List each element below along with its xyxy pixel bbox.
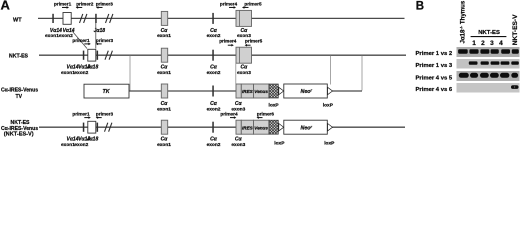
gel band row 4 (NKT-ES-V lane)	[511, 85, 519, 89]
homology vertical line left	[129, 56, 131, 91]
loxP triangle 2 (TV)	[328, 87, 333, 94]
svg-text:primer3: primer3	[96, 2, 114, 7]
Ca exon1 box (NKT-ES-V)	[161, 120, 167, 134]
IRES box (TV)	[241, 84, 253, 98]
svg-text:(NKT-ES-V): (NKT-ES-V)	[4, 132, 34, 138]
Ja18 tick (NKT-ES)	[97, 51, 99, 60]
svg-text:primer2: primer2	[76, 2, 94, 7]
svg-text:exon2: exon2	[207, 142, 221, 148]
locus break right (WT)	[106, 14, 113, 23]
svg-text:Vα14: Vα14	[63, 28, 75, 34]
svg-text:WT: WT	[13, 18, 22, 24]
svg-text:primer1: primer1	[72, 38, 90, 43]
svg-text:primer1: primer1	[72, 112, 90, 117]
svg-text:Cα: Cα	[210, 28, 218, 34]
svg-text:primer5: primer5	[244, 2, 262, 7]
Ca exon1 box (NKT-ES)	[161, 48, 167, 62]
loxP triangle 1 (NKT-ES-V)	[279, 124, 284, 131]
primer3 arrow (NKT-ES-V)	[98, 117, 102, 119]
Va14 exon2 open box (NKT-ES)	[88, 49, 96, 61]
svg-text:exon1: exon1	[157, 142, 171, 148]
svg-text:Jα18: Jα18	[87, 137, 99, 143]
svg-text:primer6: primer6	[257, 112, 275, 117]
svg-text:exon2: exon2	[207, 107, 221, 113]
svg-text:Cα: Cα	[210, 65, 218, 71]
Va14 exon1 tick (NKT-ES)	[83, 51, 85, 60]
locus break (NKT-ES-V)	[105, 123, 112, 132]
Ca exon3 strip (NKT-ES-V)	[236, 120, 241, 134]
Ja18 tick (NKT-ES-V)	[97, 123, 99, 132]
svg-text:loxP: loxP	[324, 141, 335, 147]
svg-text:Cα: Cα	[241, 65, 249, 71]
svg-text:TV: TV	[16, 94, 23, 100]
svg-text:TK: TK	[103, 89, 111, 95]
svg-text:IRES: IRES	[242, 89, 254, 94]
Ca exon3 box (NKT-ES)	[236, 47, 252, 63]
polyA hatched box (TV)	[269, 84, 278, 98]
gel strip row 4 (Primer 4 vs 6)	[457, 83, 520, 93]
svg-text:primer4: primer4	[220, 2, 238, 7]
Va14 exon2 open box (NKT-ES-V)	[88, 121, 96, 133]
svg-text:Vα14: Vα14	[67, 137, 79, 143]
gel bands row 3	[459, 73, 518, 78]
svg-text:primer4: primer4	[220, 112, 238, 117]
svg-text:NKT-ES: NKT-ES	[478, 30, 500, 36]
NKT-ES-V locus line	[39, 126, 405, 128]
svg-text:4: 4	[499, 40, 503, 47]
svg-text:Primer 1 vs 2: Primer 1 vs 2	[416, 51, 453, 57]
svg-text:Cα: Cα	[161, 65, 169, 71]
primer4 arrow (NKT-ES)	[228, 44, 232, 46]
svg-text:Jα18: Jα18	[94, 28, 106, 34]
Venus box (NKT-ES-V)	[254, 120, 270, 134]
Neo box (NKT-ES-V)	[284, 120, 328, 134]
Ca exon2 tick (TV)	[212, 86, 214, 97]
svg-text:Jα18-/- Thymus: Jα18-/- Thymus	[459, 0, 467, 43]
svg-text:exon2: exon2	[59, 33, 73, 39]
Ja18 tick (WT)	[95, 14, 97, 23]
svg-text:A: A	[1, 0, 11, 13]
svg-text:exon1: exon1	[45, 33, 59, 39]
svg-text:exon2: exon2	[74, 70, 88, 76]
svg-text:2: 2	[481, 40, 485, 47]
svg-text:primer3: primer3	[96, 38, 114, 43]
TV vector line	[128, 90, 362, 92]
Ca exon3 strip (TV)	[236, 84, 241, 98]
svg-text:Cα: Cα	[161, 28, 169, 34]
svg-text:exon1: exon1	[61, 142, 75, 148]
Va14 exon1 tick (NKT-ES-V)	[83, 123, 85, 132]
svg-text:exon1: exon1	[157, 70, 171, 76]
primer1 arrow (NKT-ES)	[84, 43, 89, 45]
gel strip row 2 (Primer 1 vs 3)	[457, 59, 520, 69]
primer4 arrow (NKT-ES-V)	[230, 117, 234, 119]
svg-text:exon3: exon3	[231, 142, 245, 148]
svg-text:primer1: primer1	[54, 2, 72, 7]
gel bands row 1	[458, 49, 519, 53]
IRES box (NKT-ES-V)	[241, 120, 253, 134]
Ca exon1 box (TV)	[161, 84, 167, 98]
svg-text:exon2: exon2	[207, 70, 221, 76]
svg-text:Jα18: Jα18	[87, 65, 99, 71]
primer1 arrow (WT)	[62, 6, 67, 8]
primer3 arrow (WT)	[98, 6, 103, 8]
polyA hatched box (NKT-ES-V)	[269, 120, 278, 134]
primer1 arrow (NKT-ES-V)	[84, 117, 89, 119]
svg-text:Cα: Cα	[210, 137, 218, 143]
rearrangement diagonal line	[73, 32, 88, 49]
primer5 arrow (WT)	[244, 6, 249, 8]
svg-text:Venus: Venus	[254, 125, 268, 130]
svg-text:exon1: exon1	[157, 107, 171, 113]
locus break left (WT)	[80, 14, 87, 23]
svg-text:NKT-ES-V: NKT-ES-V	[512, 14, 519, 45]
svg-text:loxP: loxP	[274, 141, 285, 147]
Va14 exon1 tick (WT)	[52, 14, 54, 23]
svg-text:Vα14: Vα14	[67, 65, 79, 71]
primer3 arrow (NKT-ES)	[98, 43, 102, 45]
svg-text:Cα: Cα	[161, 101, 169, 107]
svg-text:exon1: exon1	[61, 70, 75, 76]
Ca exon2 tick (NKT-ES-V)	[212, 122, 214, 133]
Neo box (TV)	[284, 84, 328, 98]
svg-text:NKT-ES: NKT-ES	[9, 53, 29, 59]
svg-text:Cα: Cα	[235, 101, 243, 107]
Ca exon2 tick (WT)	[212, 13, 214, 24]
Ca exon3 box (WT)	[236, 10, 252, 26]
svg-text:exon3: exon3	[237, 70, 251, 76]
svg-text:Cα: Cα	[210, 101, 218, 107]
gel bands row 2	[469, 61, 519, 64]
Venus box (TV)	[254, 84, 270, 98]
svg-text:Primer 4 vs 5: Primer 4 vs 5	[416, 75, 453, 81]
loxP triangle 2 (NKT-ES-V)	[328, 124, 333, 131]
svg-text:Venus: Venus	[254, 89, 268, 94]
NKT-ES locus line	[39, 54, 406, 56]
NKT-ES underline	[471, 36, 507, 38]
homology vertical line at exon3	[235, 64, 237, 84]
Ca exon1 box (WT)	[161, 11, 167, 25]
svg-text:IRES: IRES	[242, 125, 254, 130]
homology vertical line after neo	[330, 56, 332, 85]
svg-text:primer4: primer4	[219, 39, 237, 44]
loxP triangle 1 (TV)	[279, 87, 284, 94]
gel strip row 3 (Primer 4 vs 5)	[457, 71, 520, 81]
gel strip row 1 (Primer 1 vs 2)	[457, 47, 520, 57]
svg-text:Cα: Cα	[235, 137, 243, 143]
svg-text:Primer 1 vs 3: Primer 1 vs 3	[416, 63, 453, 69]
rearrangement vertical line at Ja18	[95, 23, 97, 49]
WT locus line	[38, 17, 405, 19]
homology vertical line right end	[361, 56, 363, 91]
TK box (TV)	[84, 84, 129, 98]
svg-text:3: 3	[490, 40, 494, 47]
svg-text:loxP: loxP	[269, 103, 280, 109]
svg-text:Cα-IRES-Venus: Cα-IRES-Venus	[1, 88, 38, 94]
svg-text:1: 1	[472, 40, 476, 47]
Va14 exon2 open box (WT)	[63, 13, 71, 25]
primer2 arrow (WT)	[78, 6, 83, 8]
header NKT-ES-V (rotated)	[512, 14, 519, 45]
svg-text:primer3: primer3	[96, 112, 114, 117]
svg-text:B: B	[416, 0, 424, 12]
svg-text:exon2: exon2	[74, 142, 88, 148]
primer4 arrow (WT)	[229, 6, 234, 8]
primer5 arrow (NKT-ES)	[247, 44, 251, 46]
primer6 arrow (NKT-ES-V)	[259, 117, 263, 119]
svg-text:Primer 4 vs 6: Primer 4 vs 6	[416, 87, 453, 93]
Ca exon2 tick (NKT-ES)	[212, 50, 214, 61]
svg-text:Cα: Cα	[241, 28, 249, 34]
svg-text:Cα: Cα	[161, 137, 169, 143]
svg-text:loxP: loxP	[323, 103, 334, 109]
header Ja18-/- Thymus (rotated)	[459, 0, 467, 43]
svg-text:exon1: exon1	[157, 33, 171, 39]
svg-text:primer5: primer5	[245, 39, 263, 44]
locus break (NKT-ES)	[105, 51, 112, 60]
svg-text:Vα14: Vα14	[50, 28, 62, 34]
